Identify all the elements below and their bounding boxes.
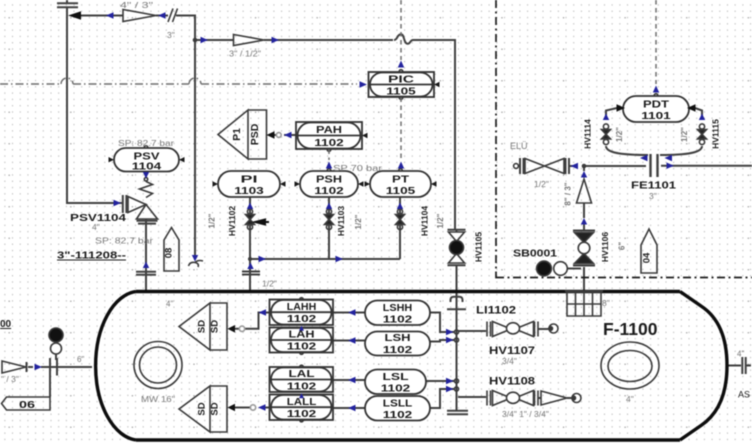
svg-text:HV1102: HV1102 <box>227 206 237 237</box>
svg-text:FE1101: FE1101 <box>631 180 676 192</box>
svg-text:HV1115: HV1115 <box>711 119 721 149</box>
svg-text:1102: 1102 <box>287 342 317 353</box>
svg-text:LSLL: LSLL <box>383 399 413 410</box>
svg-text:1/2": 1/2" <box>262 279 277 289</box>
svg-text:P1: P1 <box>231 128 243 141</box>
svg-text:1102: 1102 <box>287 409 317 420</box>
svg-text:LSHH: LSHH <box>383 303 413 314</box>
svg-text:F-1100: F-1100 <box>603 319 658 339</box>
svg-text:HV1106: HV1106 <box>600 232 610 263</box>
svg-text:LAL: LAL <box>289 369 315 380</box>
svg-text:6": 6" <box>77 355 84 364</box>
svg-text:" / 3": " / 3" <box>1 374 19 384</box>
svg-text:HV1103: HV1103 <box>336 206 346 237</box>
svg-text:08: 08 <box>164 248 175 259</box>
svg-text:1102: 1102 <box>381 384 411 395</box>
svg-text:3"-111208--: 3"-111208-- <box>57 251 126 262</box>
svg-text:HV1108: HV1108 <box>489 376 535 388</box>
svg-text:PDT: PDT <box>643 100 669 111</box>
svg-text:4": 4" <box>166 300 173 309</box>
svg-text:3": 3" <box>167 30 175 40</box>
svg-text:1102: 1102 <box>287 382 317 393</box>
svg-text:LAHH: LAHH <box>287 302 317 313</box>
svg-text:1/2": 1/2" <box>680 127 689 142</box>
svg-text:MW 16": MW 16" <box>141 394 175 404</box>
svg-text:SP: 82.7 bar: SP: 82.7 bar <box>118 138 174 148</box>
svg-text:SD: SD <box>210 402 221 415</box>
svg-text:AS: AS <box>738 390 750 400</box>
svg-text:LSH: LSH <box>385 333 411 344</box>
svg-text:LAH: LAH <box>289 330 315 341</box>
svg-text:PT: PT <box>392 175 409 186</box>
svg-text:LI1102: LI1102 <box>476 305 516 317</box>
svg-text:SD: SD <box>210 320 221 333</box>
svg-text:1102: 1102 <box>383 315 413 326</box>
svg-text:1101: 1101 <box>641 111 671 122</box>
svg-text:PI: PI <box>241 175 258 186</box>
svg-text:SD: SD <box>197 402 208 415</box>
svg-text:06: 06 <box>19 399 35 411</box>
svg-text:LSL: LSL <box>383 372 409 383</box>
svg-text:1/2": 1/2" <box>208 213 217 228</box>
svg-text:1105: 1105 <box>386 186 416 197</box>
svg-text:1105: 1105 <box>386 87 416 98</box>
svg-text:1/2": 1/2" <box>354 214 363 229</box>
svg-text:PSH: PSH <box>316 175 342 186</box>
svg-text:SP 70 bar: SP 70 bar <box>333 163 382 173</box>
svg-text:1102: 1102 <box>383 410 413 421</box>
svg-text:1/2": 1/2" <box>615 127 624 142</box>
svg-text:SB0001: SB0001 <box>513 248 557 260</box>
svg-text:4": 4" <box>92 222 100 232</box>
svg-text:1102: 1102 <box>314 186 344 197</box>
svg-text:1/2": 1/2" <box>436 213 445 228</box>
svg-text:3/4": 3/4" <box>502 356 517 366</box>
svg-text:4": 4" <box>626 394 634 404</box>
svg-text:8" / 3": 8" / 3" <box>564 182 573 205</box>
svg-text:4": 4" <box>737 350 744 359</box>
svg-text:1103: 1103 <box>234 186 264 197</box>
svg-text:8": 8" <box>602 298 610 308</box>
svg-text:1104: 1104 <box>132 162 162 173</box>
svg-text:4" / 3": 4" / 3" <box>120 0 153 10</box>
svg-text:PSD: PSD <box>249 123 261 145</box>
svg-text:HV1105: HV1105 <box>474 232 484 263</box>
svg-text:1102: 1102 <box>314 138 344 149</box>
svg-text:ELÜ: ELÜ <box>510 141 528 151</box>
svg-text:PIC: PIC <box>388 75 414 86</box>
svg-text:PAH: PAH <box>316 125 342 136</box>
svg-text:3": 3" <box>649 191 657 201</box>
svg-text:04: 04 <box>642 252 653 263</box>
svg-text:3/4" 1" / 3/4": 3/4" 1" / 3/4" <box>502 409 549 419</box>
svg-text:HV1104: HV1104 <box>420 206 430 237</box>
svg-text:SD: SD <box>197 320 208 333</box>
svg-text:6": 6" <box>618 242 627 250</box>
svg-text:HV1114: HV1114 <box>583 119 593 149</box>
svg-text:SP: 82.7 bar: SP: 82.7 bar <box>95 236 153 246</box>
svg-text:1102: 1102 <box>287 314 317 325</box>
svg-text:00: 00 <box>0 319 12 330</box>
svg-text:3" / 1/2": 3" / 1/2" <box>229 49 261 59</box>
svg-text:LALL: LALL <box>287 397 317 408</box>
svg-text:1102: 1102 <box>383 345 413 356</box>
svg-text:1/2": 1/2" <box>534 179 549 189</box>
